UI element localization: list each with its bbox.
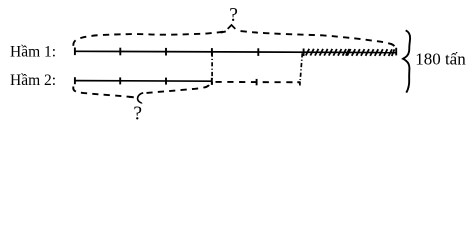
bottom brace left terminal dash <box>129 96 134 99</box>
bar 1 baseline <box>75 51 397 52</box>
right curly brace for total <box>403 30 410 92</box>
bar 1 tick 2 <box>119 48 121 56</box>
top brace left terminal dash <box>221 31 226 32</box>
svg-text:?: ? <box>133 103 142 124</box>
bar 2 tick 3 <box>165 78 167 85</box>
bottom brace notch <box>138 93 144 104</box>
vertical dash-dot connector right <box>300 53 303 85</box>
svg-text:Hầm 1:: Hầm 1: <box>10 43 56 60</box>
tick on bar 2 dashed extension <box>256 79 258 85</box>
top brace right terminal dash <box>391 44 395 47</box>
bar 1 tick 5 <box>257 48 259 56</box>
bottom dashed brace left part <box>73 87 133 98</box>
bar 1 tick 6 <box>303 49 305 57</box>
top dashed brace left part <box>73 31 224 45</box>
bar 1 end tick <box>395 48 397 56</box>
svg-text:?: ? <box>229 5 238 26</box>
bar 2 baseline solid <box>75 80 212 83</box>
bar 2 dashed extension <box>216 81 301 83</box>
bar 1 tick 3 <box>165 48 167 56</box>
bottom brace right terminal dash <box>205 85 209 87</box>
vertical dash-dot connector left <box>211 53 213 85</box>
svg-text:180 tấn: 180 tấn <box>415 49 466 68</box>
top brace caret <box>228 25 236 29</box>
bar 2 tick 4 <box>211 78 213 85</box>
bar 1 tick 1 <box>74 48 76 56</box>
bar 1 hatched segment <box>306 49 395 56</box>
svg-text:Hầm 2:: Hầm 2: <box>10 72 56 89</box>
bar 2 tick 2 <box>119 77 121 84</box>
bottom dashed brace right part <box>147 85 210 93</box>
top dashed brace right part <box>241 31 395 46</box>
bar 1 tick 4 <box>211 48 213 56</box>
bar 2 tick 1 <box>74 77 76 84</box>
